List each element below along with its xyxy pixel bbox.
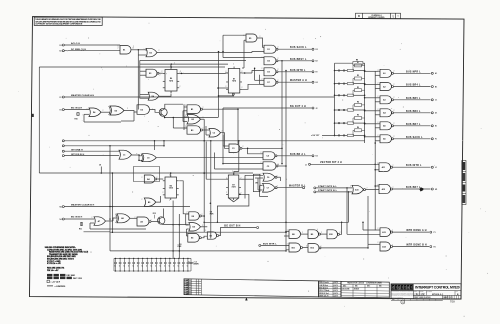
wire ladder feed vertical x375 [374, 71, 376, 230]
digital logo [391, 284, 413, 291]
svg-text:M7820-0-1: M7820-0-1 [432, 294, 444, 296]
notes symbol legend [47, 280, 49, 282]
wire C1b out long to C4 [156, 157, 263, 159]
wire D5 out to D6 [124, 111, 137, 113]
svg-text:g: g [398, 286, 400, 290]
svg-text:E3: E3 [210, 235, 212, 237]
resistor pair R5 [334, 122, 336, 124]
and gate B8 [289, 230, 301, 239]
svg-text:VECTOR BIT 2 H: VECTOR BIT 2 H [320, 162, 342, 164]
svg-text:BUS SACK L: BUS SACK L [290, 46, 307, 49]
capacitor bank rails [114, 257, 191, 259]
input BG IN B terminal [62, 218, 64, 220]
wire A11 out BUS INTR [393, 166, 431, 168]
flip-flop B6 7474 [165, 177, 177, 198]
svg-text:DEC3639B: DEC3639B [342, 289, 351, 291]
svg-text:a: a [407, 286, 409, 290]
wire A14 out INTR DONE B [393, 246, 430, 248]
input BG 1 terminal [62, 155, 64, 157]
svg-text:M1: M1 [435, 189, 437, 191]
svg-text:C5: C5 [267, 166, 269, 168]
terminal BUS SACK L [431, 138, 433, 140]
wire output BUS SACK L [394, 138, 431, 140]
svg-text:PIN 14 = +5V: PIN 14 = +5V [47, 269, 59, 272]
title text INTERRUPT CONTROL M7820 [391, 284, 461, 299]
wire A7 out to A8 [106, 220, 114, 222]
nand gate B11 [289, 243, 301, 252]
svg-text:A1: A1 [435, 72, 437, 75]
wire FF2 left pins [225, 72, 228, 74]
svg-text:BUS BR7 L: BUS BR7 L [406, 187, 421, 189]
svg-text:B1: B1 [191, 109, 193, 111]
svg-text:E2: E2 [149, 52, 151, 54]
jumper box W1 [253, 174, 260, 192]
svg-text:BUS INTR L: BUS INTR L [406, 165, 422, 167]
resistor pair R6 [334, 135, 336, 137]
nand gate B1 [187, 105, 200, 114]
wire bend BG OUT 4 down to C5 [222, 108, 224, 164]
terminal MASTER B L [303, 187, 305, 189]
resistor pair R4 [334, 109, 336, 111]
wire E4 inputs [140, 94, 149, 96]
wire A5 input from ladder [365, 123, 380, 125]
or gate C1 [119, 150, 132, 159]
nand gate E3 [146, 69, 157, 77]
wire output BUS BR6 L [394, 112, 431, 114]
svg-text:E1: E1 [435, 126, 437, 128]
svg-text:D7: D7 [267, 82, 269, 84]
svg-text:BG OUT B H: BG OUT B H [224, 225, 240, 227]
svg-text:2: 2 [277, 186, 278, 188]
svg-text:C9: C9 [147, 158, 149, 160]
svg-text:+5V R7: +5V R7 [311, 135, 320, 137]
wire into C6 [245, 174, 263, 176]
flip-flop E7 7474 [228, 69, 240, 94]
terminal BUS BR4 L [431, 86, 433, 88]
svg-text:A9: A9 [140, 220, 142, 223]
capacitor bank C2-C17 [115, 258, 117, 262]
nor gate C7 [263, 183, 276, 192]
and gate E1 ACLO [120, 46, 131, 55]
nand gate B9 [308, 230, 319, 239]
wire B3 out to C2 [203, 129, 210, 131]
input BG 2 terminal [62, 150, 64, 152]
wire E1 out to E2 [131, 49, 146, 51]
wire E5 in2 loop [244, 39, 246, 41]
resistor ladder left rail [334, 63, 336, 136]
wire FF2 bottom bubble [232, 93, 234, 95]
wire A6 input from ladder [365, 136, 380, 138]
input INTR ENB terminal [259, 244, 261, 246]
wire vertical x210 long [210, 141, 212, 239]
terminal MASTER A H [312, 81, 314, 83]
nand gate E3b [207, 232, 216, 239]
wire x218 vertical [218, 52, 220, 118]
svg-text:PROJ T.Wade: PROJ T.Wade [319, 290, 329, 292]
circled sheet number [401, 300, 405, 304]
terminal BUS BR7 L [431, 125, 433, 127]
wire BG OUT 4 H [223, 107, 312, 109]
notes boxed ic list [47, 274, 52, 276]
resistor pair R2 [334, 83, 336, 85]
and gate D6 [137, 105, 150, 115]
nand gate A12 [379, 184, 390, 193]
svg-text:E2: E2 [316, 61, 318, 63]
wire output MASTER A H [278, 81, 312, 83]
proprietary note box [34, 17, 102, 25]
wire left bus vertical [38, 67, 40, 173]
svg-text:R1: R1 [357, 62, 359, 64]
input MASTER CLEAR A terminal [62, 96, 64, 98]
revision history box [184, 279, 319, 297]
ink blob annotation [419, 187, 423, 191]
svg-text:B1: B1 [435, 86, 437, 88]
wire FF3 top stub [170, 173, 172, 177]
conversion chart [341, 281, 389, 298]
wire A4 input from ladder [365, 110, 380, 112]
or gate B2 [187, 115, 201, 125]
terminal BG OUT 4 H [312, 107, 314, 109]
nand gate A11 [379, 163, 391, 172]
svg-text:L1: L1 [435, 167, 437, 169]
svg-text:B9: B9 [311, 234, 313, 236]
wire B8 to B9 [301, 233, 309, 235]
wire vertical x173 to cap rail [172, 201, 174, 259]
wire long net y67 [39, 66, 225, 68]
svg-text:J2: J2 [316, 108, 318, 110]
xor gate A8 [117, 214, 130, 223]
svg-text:D: D [358, 15, 360, 18]
svg-text:C1: C1 [435, 100, 437, 102]
svg-text:NUMBER: NUMBER [427, 291, 432, 293]
wire E4b out to E3 [201, 226, 208, 228]
wire A9 out to Q2 [151, 221, 160, 223]
svg-text:F2: F2 [60, 97, 62, 99]
svg-text:2N3639: 2N3639 [354, 289, 359, 291]
nand gate A2 output [380, 83, 392, 91]
nand gate A14 [380, 242, 391, 251]
wire drop from rail [172, 118, 174, 129]
terminal BUS BR5 L [431, 99, 433, 101]
svg-text:R2: R2 [357, 75, 359, 77]
wire cluster left feeds [285, 222, 287, 224]
svg-text:D2: D2 [60, 45, 62, 47]
svg-text:W1: W1 [255, 183, 258, 185]
svg-text:7474: 7474 [232, 80, 236, 83]
wire vertical x110 long [109, 146, 111, 251]
wire D3 out branch down x286 [285, 70, 287, 72]
svg-text:A3: A3 [383, 99, 385, 102]
wire C1 out to C1b [132, 154, 143, 157]
terminal BUS INTR L [312, 71, 314, 73]
nand gate A6 output [380, 135, 392, 143]
svg-text:K2: K2 [316, 156, 318, 158]
dist row [391, 298, 443, 300]
svg-text:INT DIS B H: INT DIS B H [71, 154, 85, 156]
or gate D4 BG IN A [89, 108, 101, 117]
wire output BUS BR5 L [394, 99, 431, 101]
svg-text:BG IN A H: BG IN A H [71, 107, 83, 110]
wire D6 out to Q1 base [150, 110, 160, 113]
wire drop x238 [237, 109, 239, 144]
svg-text:R6: R6 [357, 127, 359, 129]
svg-text:1: 1 [118, 46, 119, 48]
svg-text:PROD S.Teal: PROD S.Teal [319, 293, 329, 295]
svg-text:R5: R5 [357, 115, 359, 117]
svg-text:1: 1 [393, 15, 394, 17]
svg-text:R10: R10 [75, 119, 78, 121]
svg-text:C6: C6 [267, 177, 269, 179]
wire FF4 bottom V [229, 198, 239, 202]
svg-text:DEC 7474: DEC 7474 [73, 277, 83, 280]
wire long net y140.8 [62, 140, 64, 142]
svg-text:IC PIN 14 = +5V: IC PIN 14 = +5V [47, 262, 62, 265]
wire +5 rail bend into B11 [110, 250, 286, 252]
transistor Q2 [158, 217, 165, 224]
wire C2 second in [206, 134, 209, 136]
svg-text:= +3V (1) H: = +3V (1) H [50, 281, 60, 283]
wire D4 lower input loop [84, 113, 89, 115]
svg-text:D5: D5 [115, 110, 117, 112]
terminal INTR DONE B [430, 246, 432, 248]
wire output BUS SACK L [278, 48, 312, 50]
wire E3 out to FF1 [159, 72, 163, 74]
svg-text:A13: A13 [382, 231, 385, 234]
svg-text:BUS SACK L: BUS SACK L [406, 136, 423, 139]
svg-text:B3: B3 [191, 130, 193, 132]
wire D4 out to D5 [101, 111, 110, 113]
flip-flop E6 7474 [165, 70, 177, 92]
wire AC LO [64, 44, 120, 46]
svg-text:R1: R1 [434, 246, 436, 248]
svg-text:INTERRUPT CONTROL M7820: INTERRUPT CONTROL M7820 [415, 286, 460, 290]
scan specks [173, 61, 176, 64]
svg-text:E5: E5 [191, 238, 193, 240]
svg-text:INT ENB H: INT ENB H [71, 149, 83, 151]
wire A13 out INTR DONE A [393, 231, 430, 233]
svg-text:A2: A2 [383, 85, 385, 88]
wire vertical x204 long [203, 119, 205, 232]
svg-text:B12: B12 [310, 248, 313, 250]
svg-text:M2: M2 [60, 207, 62, 209]
nand gate B3 [187, 126, 201, 134]
svg-text:F1: F1 [435, 139, 437, 141]
wire output BUS BR4 L [394, 86, 431, 88]
or gate C1b [142, 154, 156, 162]
svg-text:A6: A6 [383, 138, 385, 141]
nand gate A4 output [380, 109, 392, 117]
wire D7 input wraps [254, 68, 256, 80]
wire C7 out MASTER B L [277, 187, 302, 189]
input START INTR B terminal [314, 191, 316, 193]
svg-text:WRITTEN PERMISSION.: WRITTEN PERMISSION. [392, 296, 404, 298]
or gate E4b [189, 223, 201, 231]
svg-text:100MFD: 100MFD [193, 264, 200, 266]
svg-text:START INTR A L: START INTR A L [318, 185, 337, 188]
wire INTR ENB [261, 244, 289, 246]
wire A10 out to A12 [366, 189, 380, 191]
wire C4 upper input from C3 [248, 148, 263, 154]
svg-text:A1: A1 [383, 72, 385, 75]
wire MASTER CLEAR A [64, 96, 334, 98]
signature box [319, 281, 341, 297]
wire A2 input from ladder [365, 84, 380, 86]
wire C3 in2 [223, 145, 229, 147]
nand gate B4 [144, 175, 155, 183]
sheet row [442, 295, 444, 299]
nand gate D2 output [264, 57, 276, 65]
terminal BG OUT B H [257, 227, 259, 229]
junction start intr drops [346, 187, 348, 189]
svg-text:1: 1 [398, 15, 399, 17]
wire DC LO [64, 50, 120, 52]
wire long net y173 [39, 172, 253, 174]
input VECTOR BIT 2 terminal [309, 163, 311, 165]
svg-text:D3: D3 [267, 72, 269, 74]
wire MASTER CLEAR B [64, 206, 190, 208]
svg-text:BUS NPR L: BUS NPR L [406, 71, 421, 73]
wire FF3 right loop to N gates [179, 181, 189, 214]
terminal INTR DONE A [430, 231, 432, 233]
svg-text:+ C1: + C1 [193, 262, 197, 264]
terminal BUS BR A L [312, 155, 314, 157]
svg-text:ACLO H: ACLO H [71, 42, 80, 45]
wire left loop vertical x140 [139, 60, 141, 98]
svg-text:P1: P1 [434, 232, 436, 234]
feedback box around B4 [134, 167, 160, 182]
wire B4 out to FF3 [157, 178, 163, 180]
size code number row [413, 294, 461, 296]
resistor R10 stub [77, 112, 79, 116]
wire B5 out [156, 196, 161, 202]
svg-text:= JUMPERS: = JUMPERS [55, 286, 67, 288]
svg-text:2: 2 [287, 244, 288, 246]
wire B2 out [201, 118, 205, 120]
nand gate A13 [380, 228, 391, 237]
wire jog 140.8 to 145.8 [163, 141, 165, 146]
nand gate A3 output [380, 96, 392, 104]
right margin microfilm strip [462, 161, 466, 205]
flip-flop B7 7474 [228, 175, 239, 198]
wire D2 out branch down x282 [281, 60, 283, 62]
svg-text:2: 2 [287, 230, 288, 232]
svg-text:H2: H2 [316, 82, 318, 84]
svg-text:E5: E5 [249, 38, 251, 40]
nand gate A1 output [380, 69, 392, 77]
input BUS AC LO terminal [62, 44, 64, 46]
nand gate A5 output [380, 122, 392, 130]
wire Q2 collector [163, 209, 165, 218]
input START INTR A terminal [314, 187, 316, 189]
wire FF2 right to D3 gate [242, 72, 252, 74]
wire C4 out [277, 155, 312, 157]
transistor Q1 [159, 108, 167, 116]
wire upper pair y60.4 [140, 59, 246, 61]
resistor ladder right rail [364, 63, 366, 143]
svg-text:7474: 7474 [169, 79, 173, 82]
svg-text:C2: C2 [213, 133, 215, 135]
wire A7 lower input loop [90, 222, 94, 224]
nand gate D3 output [264, 68, 276, 76]
nand gate D7 output [264, 78, 276, 86]
resistor R8 top [335, 62, 353, 64]
svg-text:t: t [405, 286, 406, 290]
svg-text:D2: D2 [316, 49, 318, 51]
wire E5b out to E3 [201, 236, 207, 238]
wire Q1 collector [165, 104, 183, 109]
wire E1 out branch down to D6 [137, 50, 139, 110]
wire A14 inputs [368, 243, 380, 245]
svg-text:A8: A8 [121, 217, 123, 220]
svg-text:E2: E2 [60, 51, 62, 53]
svg-text:B11: B11 [292, 247, 295, 249]
wire emitter rail y117.5 [165, 117, 218, 119]
wire A13 inputs [363, 229, 380, 231]
svg-text:B2: B2 [191, 119, 193, 121]
nand gate C3 [229, 144, 240, 153]
svg-text:J1: J1 [305, 164, 307, 166]
svg-text:D1: D1 [435, 113, 437, 115]
wire output BUS BBSY L [278, 60, 312, 62]
svg-text:7/29: 7/29 [450, 301, 455, 304]
wire vertical x112 [111, 173, 113, 232]
svg-text:CODE: CODE [420, 291, 423, 293]
xor gate D5 [110, 106, 124, 115]
svg-text:BUS BR7 L: BUS BR7 L [406, 124, 421, 126]
wire E3b out to BG OUT B [219, 228, 256, 236]
wire FF4 top feed from x238.8 [238, 141, 240, 172]
or gate B5 [144, 198, 156, 206]
svg-text:H2: H2 [60, 110, 62, 112]
wire FF1 top stub to net [170, 64, 172, 67]
wire output BUS BR7 L [394, 125, 431, 127]
junction FF top [171, 63, 173, 65]
resistor R11 stub [81, 222, 83, 226]
nand gate E5b [188, 233, 199, 242]
wire BG IN A [64, 109, 89, 111]
wire E3 inputs [140, 70, 146, 72]
svg-text:F2: F2 [316, 72, 318, 74]
svg-text:7474: 7474 [169, 187, 173, 190]
and gate E5 top [246, 34, 257, 42]
nand gate C5 [263, 162, 276, 170]
svg-text:BUS INTR L: BUS INTR L [290, 70, 306, 72]
wire FF2 lower right [242, 84, 264, 89]
svg-text:7474: 7474 [232, 186, 236, 189]
wire drop from 140.8 into C1b [154, 141, 156, 150]
svg-text:BG IN B H: BG IN B H [71, 217, 83, 219]
wire C7 input loops [260, 185, 263, 187]
fold mark tick on left border [32, 114, 34, 117]
nor gate A10 [352, 185, 364, 194]
wire A8 out to A9 [130, 217, 137, 219]
wire A12 out BUS BR7 [393, 188, 431, 190]
svg-text:BUS BR4 L: BUS BR4 L [406, 84, 421, 87]
svg-text:D1: D1 [267, 49, 269, 51]
wire E5 in from x223 [223, 34, 246, 36]
top margin title strip [356, 13, 401, 19]
wire upper pair y64.1 [140, 63, 228, 65]
wire vertical x179 [178, 214, 180, 258]
input DC LO terminal [62, 50, 64, 52]
wire mid pair into C5 [223, 163, 263, 165]
wire E8 out [201, 215, 204, 217]
wire Q2 emitter rail [162, 223, 164, 225]
svg-text:R8: R8 [356, 60, 358, 62]
svg-text:B5: B5 [148, 202, 150, 204]
wire A11 lower input [375, 169, 379, 171]
wire E4 out to FF1 bottom [159, 94, 171, 97]
